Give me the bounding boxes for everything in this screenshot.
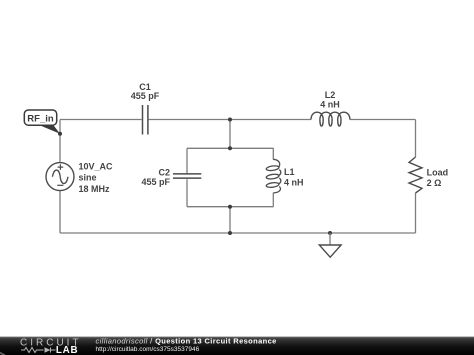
voltage source V1 [46,163,74,191]
wire: center column top (junction to tank top) [229,120,231,149]
label V1 value [79,162,114,194]
wire: C1 to center junction [149,119,230,121]
capacitor C2 [173,174,201,178]
wire: left rail bottom (source to bottom rail) [59,190,61,233]
wire: tank left side [186,148,188,206]
svg-text:10V_AC: 10V_AC [79,162,114,172]
wire: tank bottom [187,206,274,208]
wire: left rail top (RF_in node to source) [59,120,61,163]
footer logo wire glyph [21,348,56,353]
label C2 value [141,167,170,187]
svg-text:Load: Load [427,168,449,178]
footer corner mark [0,353,5,355]
wire: center column bottom (tank to bottom rail) [229,207,231,233]
svg-text:L2: L2 [325,90,336,100]
node junction center-top [228,118,232,122]
svg-text:455 pF: 455 pF [141,177,170,187]
svg-text:2 Ω: 2 Ω [427,178,442,188]
svg-text:L1: L1 [284,167,295,177]
node junction bottom rail [228,231,232,235]
resistor Load [409,157,422,193]
svg-text:C2: C2 [158,167,170,177]
svg-text:cillianodriscoll / Question 13: cillianodriscoll / Question 13 Circuit R… [96,336,277,345]
footer bar [0,337,474,355]
inductor L1 [266,159,281,193]
svg-text:http://circuitlab.com/cs375s35: http://circuitlab.com/cs375s3537946 [96,346,200,353]
svg-text:sine: sine [79,173,97,183]
label Load value [427,168,449,188]
ground [319,233,341,257]
label C1 value [131,82,160,101]
wire: tank top [187,147,274,149]
svg-text:4 nH: 4 nH [284,178,304,188]
capacitor C1 [143,105,148,135]
inductor L2 [311,112,350,126]
svg-text:18 MHz: 18 MHz [79,184,111,194]
label L1 value [284,167,304,187]
wire: right rail bottom (load to bottom rail) [415,193,417,233]
wire: top rail from RF_in node to C1 [60,119,142,121]
wire: center junction to L2 [230,119,311,121]
label L2 value [320,90,340,110]
svg-text:RF_in: RF_in [27,114,54,125]
flag RF_in [24,110,62,136]
node junction ground [328,231,332,235]
svg-text:4 nH: 4 nH [320,99,340,109]
svg-text:455 pF: 455 pF [131,91,160,101]
wire: tank right side [272,148,274,206]
node junction tank bottom [228,205,232,209]
footer logo diode [45,347,51,353]
wire: right rail top (corner to load) [415,120,417,158]
svg-text:LAB: LAB [56,345,79,355]
wire: L2 to top-right corner [350,119,416,121]
wire: bottom rail [60,232,416,234]
node junction tank top [228,146,232,150]
